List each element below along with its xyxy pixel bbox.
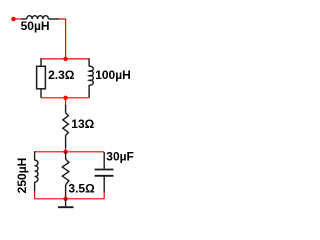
inductor L1 50µH <box>21 16 59 19</box>
wire R2 to rail2 <box>65 148 67 152</box>
inductor L2 100µH <box>89 58 93 98</box>
wire rail2 top <box>35 151 105 153</box>
svg-text:50µH: 50µH <box>21 19 50 33</box>
wire rail1 top <box>41 58 89 60</box>
node IN terminal dot <box>11 17 16 22</box>
ground <box>58 199 74 207</box>
svg-text:3.5Ω: 3.5Ω <box>68 182 95 196</box>
wire terminal to L1 <box>15 18 22 20</box>
svg-text:2.3Ω: 2.3Ω <box>48 68 75 82</box>
node junction rail2 bottom <box>63 197 67 201</box>
node junction rail1 bottom <box>63 96 67 100</box>
resistor R1 2.3Ω <box>37 58 46 98</box>
node junction rail2 top <box>63 150 67 154</box>
svg-text:30µF: 30µF <box>106 149 134 163</box>
resistor R3 3.5Ω <box>62 152 69 199</box>
wire L1 to rail1 (corner) <box>59 19 66 59</box>
svg-text:13Ω: 13Ω <box>71 117 94 131</box>
inductor L3 250µH <box>35 151 38 191</box>
capacitor C1 30µF <box>95 152 114 193</box>
wire junction down to R2 <box>65 98 67 106</box>
svg-text:100µH: 100µH <box>95 68 131 82</box>
svg-text:250µH: 250µH <box>15 158 29 194</box>
wire rail2 bottom <box>35 198 105 200</box>
node junction rail1 top <box>63 57 67 61</box>
wire rail1 bottom <box>41 97 89 99</box>
resistor R2 13Ω <box>63 105 69 148</box>
